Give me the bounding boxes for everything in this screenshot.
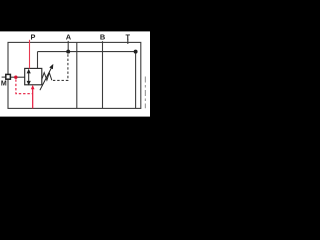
wire: M gauge line to valve [10, 76, 24, 78]
adjustment arrow across spring [40, 68, 52, 91]
wire: T inner line horizontal [38, 51, 136, 53]
red P supply line from port P to valve [29, 40, 31, 69]
wire: A port stub [67, 41, 69, 52]
red gauge pilot dashed line [16, 79, 32, 93]
wire: M gauge stub outside [2, 76, 6, 78]
svg-text:M: M [1, 80, 7, 87]
svg-text:P: P [31, 33, 36, 42]
wire: B line through plate [102, 41, 104, 108]
wire: T port stub [127, 39, 129, 44]
svg-text:T: T [125, 33, 130, 42]
measuring port plug box M [6, 74, 11, 79]
red reduced pressure line from valve to bottom with up arrow [32, 89, 34, 109]
valve block outer rectangle [8, 42, 141, 108]
wire: mid vertical line [76, 42, 78, 108]
svg-text:B: B [100, 33, 105, 42]
svg-text:A: A [66, 33, 72, 42]
wire: valve inlet vertical from inner line to valve top [37, 52, 39, 69]
node: red gauge junction dot [14, 76, 17, 79]
flow path arrow inside valve (double headed) [27, 70, 30, 84]
valve body U1 (pressure reducing valve) [25, 68, 42, 84]
pilot line dashed to A [53, 54, 68, 81]
wire: T line vertical from junction to bottom [135, 52, 137, 109]
drain line dash-dot outside right edge [144, 77, 146, 109]
white content band [0, 31, 150, 116]
spring [42, 73, 52, 81]
node: junction dot on A line [66, 50, 70, 54]
node: junction dot on T line [134, 50, 138, 54]
